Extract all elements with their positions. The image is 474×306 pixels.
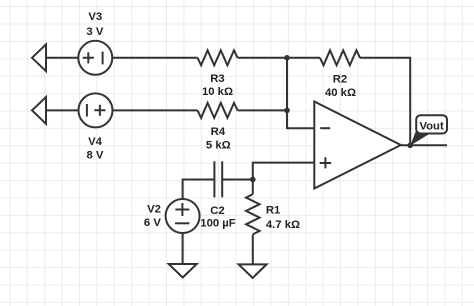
svg-text:3 V: 3 V — [86, 26, 103, 38]
svg-text:5 kΩ: 5 kΩ — [206, 139, 231, 151]
svg-text:40 kΩ: 40 kΩ — [325, 87, 356, 99]
svg-text:100 µF: 100 µF — [200, 218, 235, 230]
svg-text:R3: R3 — [210, 73, 224, 85]
svg-text:V4: V4 — [88, 136, 103, 148]
svg-text:C2: C2 — [210, 205, 224, 217]
svg-text:Vout: Vout — [419, 121, 443, 133]
svg-text:6 V: 6 V — [144, 217, 161, 229]
svg-text:R2: R2 — [333, 74, 347, 86]
svg-text:R4: R4 — [211, 126, 226, 138]
svg-text:V3: V3 — [88, 11, 102, 23]
svg-text:V2: V2 — [147, 203, 161, 215]
svg-text:R1: R1 — [266, 205, 280, 217]
svg-text:10 kΩ: 10 kΩ — [202, 86, 233, 98]
svg-text:8 V: 8 V — [87, 150, 104, 162]
svg-text:4.7 kΩ: 4.7 kΩ — [266, 219, 300, 231]
